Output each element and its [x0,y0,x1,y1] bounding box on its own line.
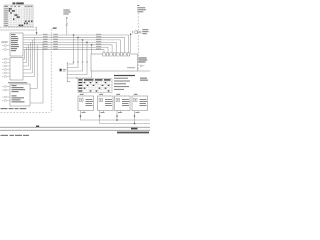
text: right margin notes lower [140,78,148,81]
label: D drop tag [136,111,140,114]
text: chart legend [114,75,135,90]
boundary: dashed panel limit right [137,13,139,71]
text: right margin notes mid [139,57,148,62]
arrowhead: alarm riser up [130,33,132,35]
wire: bus W6 [23,47,108,53]
junction: D bus dot [134,123,136,125]
table: header text marks [5,6,33,7]
wire: bus W3 [23,40,120,53]
junction: dot W4 [86,42,88,44]
junction: dot W5 [91,44,93,46]
boundary: dashed panel limit vertical [0,29,51,113]
wire: box C drop [116,111,118,121]
frame: bottom border line B [0,129,150,131]
label: wire tags near panel [96,34,101,50]
arrowhead: D drop [134,116,136,118]
arrowhead: C drop [116,116,118,118]
text: box2 labels group2 [12,95,25,102]
wire: branch to box1b pin3 [23,45,28,66]
box: programmer control (left box 1) [10,33,23,56]
text: alarm labels [142,29,148,34]
switch: box1 left stub 1 [2,44,10,46]
wire: branch to box1b pin1 [23,50,24,59]
wire: branch to box2 pin2 [30,42,43,103]
label: tag near dashed boundary top [53,27,57,29]
label: wire tags right of boundary [53,34,58,50]
box: gas pressure switches (left box 2) [10,84,30,106]
text: panel inner label [127,67,135,68]
wire: bus W5 [23,45,112,53]
wire: off-page branch up [66,17,68,35]
box: burner control panel [91,54,138,71]
wire: bus W1 [23,35,128,53]
label: B drop tag [101,111,105,114]
wire: incoming dashed feed from left [0,27,37,32]
text: bottom right caption [117,132,149,134]
label: revision tick left [36,126,39,128]
table: settings chart marks [79,79,111,91]
symbol: small circle note [140,65,145,67]
wire: box D drop [134,111,136,124]
label: A drop tag [82,111,86,114]
wire: branch to box1b pin4 [23,42,30,69]
wire: branch to box2 pin1 [30,45,37,89]
arrowhead: feed down arrow [36,32,38,34]
switch: box1b stubs [2,58,10,77]
junction: dot W1 [73,34,75,36]
label: wire tags left column [43,34,48,50]
wire: box A drop to bus [81,111,151,121]
text: box2 labels group1 [12,85,26,92]
connector: terminal strip on panel top [103,53,130,56]
wire: drop to connector t4 [67,42,87,74]
sensor: box A steam pressure [78,94,94,111]
box: low water cutoff (left box 1b) [10,58,23,81]
label: W2 tag [60,69,62,72]
wire: bus W2 [23,37,124,52]
label: drop tags [73,61,93,64]
frame: bottom border line A [0,126,150,128]
junction: C bus dot [116,119,118,121]
text: tag annotation [63,68,66,71]
text: off-page label top right [137,5,146,12]
junction: dot W3 [82,39,84,41]
connector: terminal bar [67,62,70,82]
wire: drop to connector t2 [67,37,78,67]
arrowhead: up arrow [66,17,67,19]
terminal: sensor bottom ticks [84,111,138,113]
text: bottom left note [1,135,30,136]
wire: branch to box1b pin6 [23,37,34,76]
table: cable schedule grid [4,5,33,27]
arrowhead: A drop [80,116,82,118]
wire: branch to box1b pin2 [23,47,26,62]
sensor: box B temperature [98,94,114,111]
separator: line right of panel [138,70,151,72]
text: programmer labels [11,34,19,51]
table: row label marks [4,8,8,26]
junction: dot W2 [77,37,79,39]
wire: box B drop to bus2 [100,111,151,124]
wire: drop to connector t1 [67,35,73,64]
text: stub caption above [1,41,8,44]
wire: branch to box1b pin5 [23,40,32,73]
wire: bus W4 [23,42,116,52]
switch: box1 left stub 2 [2,48,10,50]
wire: bus W7 [23,50,104,53]
label: drawing tag right [131,128,138,130]
table: settings chart [77,77,113,93]
wire: drop to connector t3 [67,40,82,71]
wire: drop to connector t5 [67,45,91,78]
symbol: line break mark [66,23,68,26]
table: filled cells [9,8,33,26]
text: caption below box1b [8,82,27,83]
text: off-page label top center [63,10,71,15]
text: note below box2 [1,108,27,109]
sensor: box D internal alarm [132,94,148,111]
alarm: bell symbol [133,31,141,34]
table: cable schedule title [12,2,23,4]
switch: box2 stubs [2,86,10,102]
arrowhead: B drop [99,116,101,118]
wire: alarm riser [130,35,132,53]
label: C drop tag [118,111,122,114]
sensor: box C combustion [115,94,131,111]
